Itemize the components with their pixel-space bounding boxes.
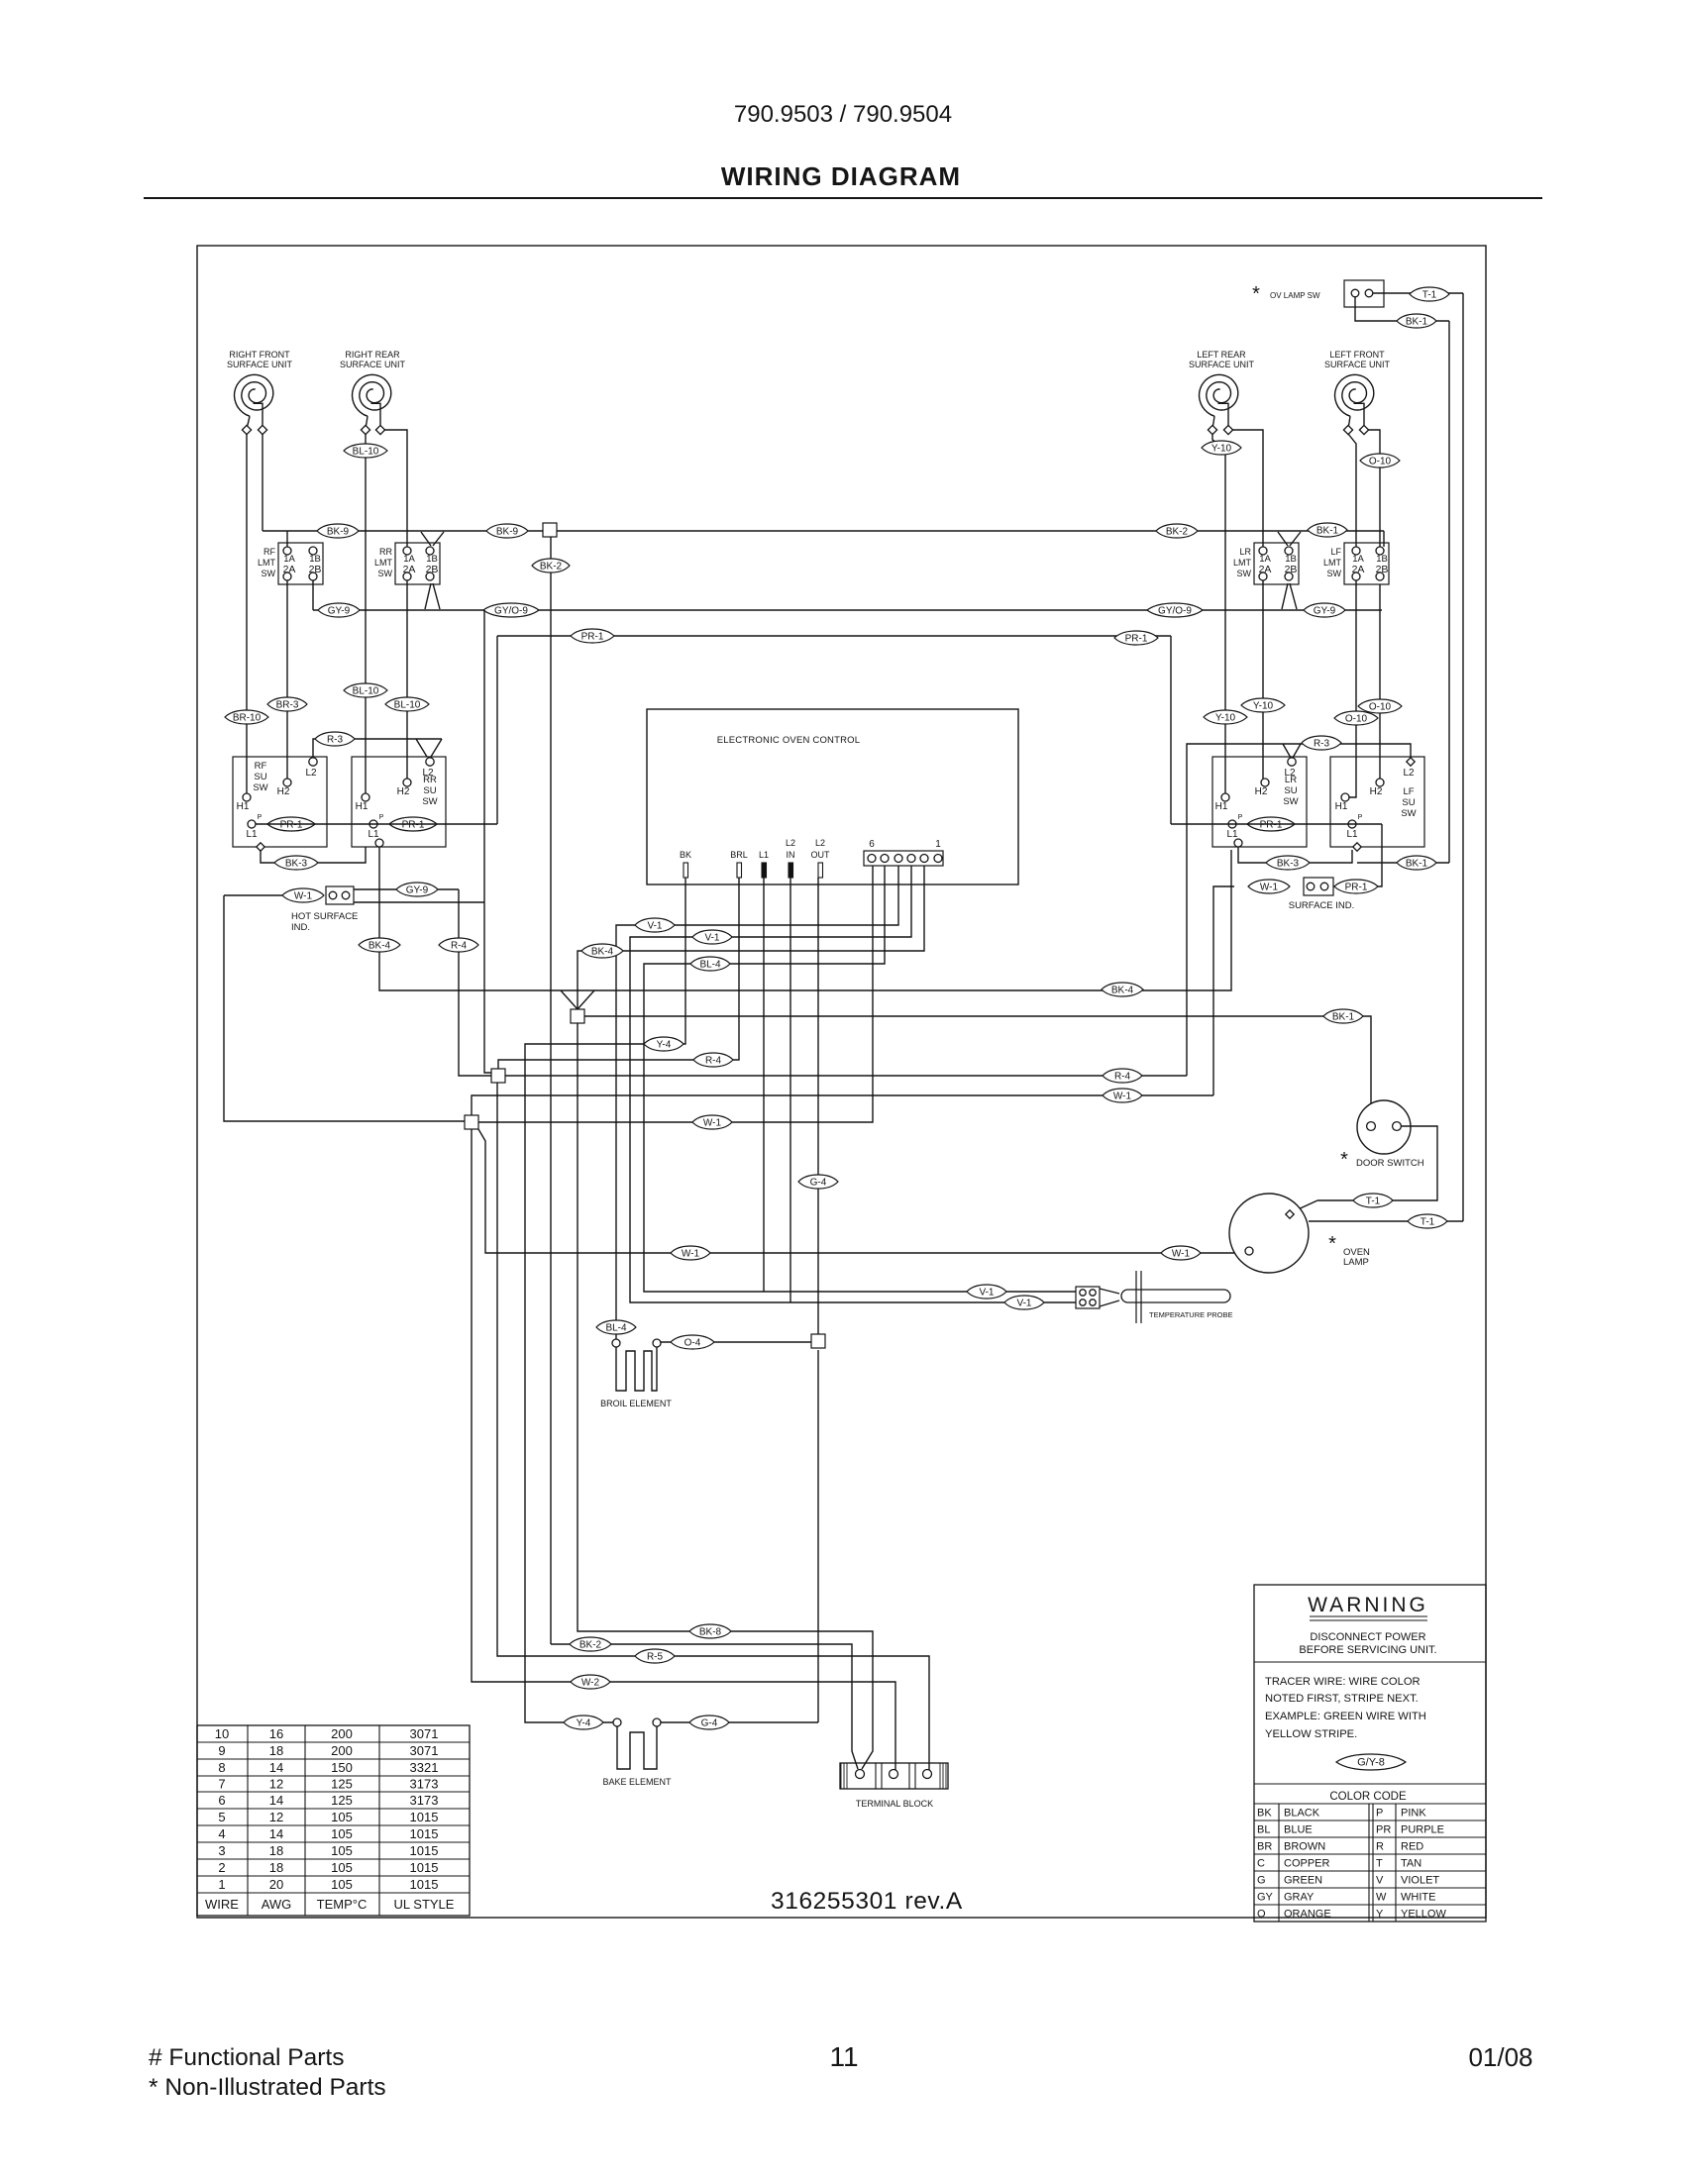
wire label BK-1 top right xyxy=(1397,314,1436,328)
wire BK-4 from EOC pin2 to junction A xyxy=(578,866,924,1009)
svg-text:20: 20 xyxy=(269,1877,283,1892)
wire PR-1 through LR/LF SU switches xyxy=(1171,823,1382,825)
wire label BK-9 left xyxy=(317,524,359,538)
wire RR right terminal over and down to RR 1A xyxy=(384,430,407,547)
wire RF 2B down to GY bus xyxy=(312,580,314,610)
wire label PR-1 right xyxy=(1114,631,1158,645)
svg-text:2B: 2B xyxy=(309,564,322,575)
svg-text:DISCONNECT POWER: DISCONNECT POWER xyxy=(1310,1631,1425,1643)
svg-text:O-10: O-10 xyxy=(1369,701,1392,712)
svg-text:RIGHT REAR: RIGHT REAR xyxy=(345,350,400,360)
wire RR left terminal to H1 with BL-10 labels xyxy=(365,434,367,793)
svg-text:10: 10 xyxy=(215,1726,229,1741)
wire from indicator to GY drop xyxy=(354,901,484,903)
svg-text:OUT: OUT xyxy=(811,850,831,860)
svg-text:BR-10: BR-10 xyxy=(233,712,262,723)
svg-text:12: 12 xyxy=(269,1777,283,1792)
svg-text:COLOR CODE: COLOR CODE xyxy=(1329,1791,1407,1803)
wire label PR-1 left xyxy=(571,629,614,643)
svg-text:SW: SW xyxy=(253,782,267,793)
svg-text:O-4: O-4 xyxy=(684,1337,701,1348)
svg-text:YELLOW: YELLOW xyxy=(1401,1909,1446,1921)
switch DOOR SWITCH xyxy=(1357,1100,1411,1154)
svg-text:H1: H1 xyxy=(356,801,368,812)
wire BK-9 bus corner down to LF 1B xyxy=(1383,531,1385,547)
svg-text:PURPLE: PURPLE xyxy=(1401,1824,1444,1836)
svg-text:L2: L2 xyxy=(786,838,795,848)
svg-text:2B: 2B xyxy=(1285,564,1298,575)
wire V-join into junction A xyxy=(561,990,578,1009)
svg-text:T-1: T-1 xyxy=(1422,289,1437,300)
svg-text:V-1: V-1 xyxy=(979,1287,994,1298)
switch LR LMT SW xyxy=(1254,543,1299,584)
svg-text:TRACER WIRE: WIRE COLOR: TRACER WIRE: WIRE COLOR xyxy=(1265,1676,1421,1688)
svg-text:LMT: LMT xyxy=(1233,558,1252,568)
svg-text:IND.: IND. xyxy=(291,922,310,933)
svg-text:1015: 1015 xyxy=(410,1843,439,1858)
wire OV LAMP SW to T-1 and down right side xyxy=(1373,292,1463,294)
svg-text:R-3: R-3 xyxy=(1314,738,1330,749)
svg-text:Y-10: Y-10 xyxy=(1215,712,1236,723)
svg-text:2A: 2A xyxy=(403,564,416,575)
wire RR 2A down through BL-10 to H2 xyxy=(406,580,408,779)
svg-text:BK-9: BK-9 xyxy=(327,526,350,537)
LR SU SW L1 bottom terminal xyxy=(1234,839,1242,847)
svg-text:O-10: O-10 xyxy=(1369,456,1392,467)
wire BK-2 drop from junction xyxy=(550,537,552,1644)
svg-text:TAN: TAN xyxy=(1401,1858,1421,1870)
svg-text:L2: L2 xyxy=(1284,768,1296,779)
svg-text:1: 1 xyxy=(218,1877,225,1892)
svg-text:BRL: BRL xyxy=(730,850,748,860)
wire LR left terminal to H1 with Y-10 labels xyxy=(1212,434,1225,793)
wire label GY/O-9 left xyxy=(483,603,539,617)
svg-text:3173: 3173 xyxy=(410,1777,439,1792)
junction A node xyxy=(571,1009,584,1023)
svg-text:1015: 1015 xyxy=(410,1826,439,1841)
svg-text:SURFACE UNIT: SURFACE UNIT xyxy=(1189,360,1255,369)
wire R-3 left from RF-SU L2 xyxy=(313,739,442,758)
svg-text:18: 18 xyxy=(269,1843,283,1858)
svg-text:LF: LF xyxy=(1403,786,1414,797)
svg-text:GY/O-9: GY/O-9 xyxy=(1158,605,1192,616)
svg-text:PR-1: PR-1 xyxy=(1260,819,1283,830)
controller U1 ELECTRONIC OVEN CONTROL box xyxy=(647,709,1018,884)
svg-text:UL STYLE: UL STYLE xyxy=(394,1897,455,1912)
svg-text:R-4: R-4 xyxy=(451,940,468,951)
switch RF SU SW (surface unit switch) xyxy=(233,757,327,847)
wire GY bus drop to junction B xyxy=(484,610,491,1073)
svg-text:TERMINAL BLOCK: TERMINAL BLOCK xyxy=(856,1799,933,1809)
svg-text:BK-1: BK-1 xyxy=(1406,316,1428,327)
svg-text:125: 125 xyxy=(331,1777,353,1792)
svg-text:H2: H2 xyxy=(1255,786,1268,797)
wire BK net RR L1 to LR L1 long run xyxy=(379,847,1231,990)
svg-text:WIRE: WIRE xyxy=(205,1897,239,1912)
wire R-3 right from LR-SU L2 xyxy=(1187,744,1411,1076)
wire G-4 from EOC L2 OUT down to bake element xyxy=(817,878,819,1334)
svg-text:BK: BK xyxy=(680,850,691,860)
wire label T-1 top xyxy=(1410,287,1449,301)
svg-text:YELLOW STRIPE.: YELLOW STRIPE. xyxy=(1265,1728,1357,1740)
svg-text:BLACK: BLACK xyxy=(1284,1808,1320,1820)
TEMPERATURE PROBE mounting plate xyxy=(1135,1271,1137,1323)
wire PR-1 riser right xyxy=(1170,636,1172,824)
svg-text:T-1: T-1 xyxy=(1421,1216,1435,1227)
svg-text:3: 3 xyxy=(218,1843,225,1858)
svg-text:BK-4: BK-4 xyxy=(368,940,391,951)
svg-text:3173: 3173 xyxy=(410,1793,439,1808)
svg-text:BL-10: BL-10 xyxy=(394,699,421,710)
svg-text:1015: 1015 xyxy=(410,1810,439,1824)
svg-text:COPPER: COPPER xyxy=(1284,1858,1330,1870)
svg-text:NOTED FIRST, STRIPE NEXT.: NOTED FIRST, STRIPE NEXT. xyxy=(1265,1693,1419,1705)
wire OV LAMP SW pin1 down to BK-1 xyxy=(1355,297,1449,321)
svg-text:R-4: R-4 xyxy=(1114,1071,1131,1082)
svg-text:Y-10: Y-10 xyxy=(1253,700,1274,711)
svg-text:Y-4: Y-4 xyxy=(577,1717,591,1728)
wire label GY-9 left xyxy=(318,603,360,617)
svg-text:BK-4: BK-4 xyxy=(1111,985,1134,995)
svg-text:5: 5 xyxy=(218,1810,225,1824)
terminal block lug 2 xyxy=(890,1770,898,1779)
junction D node xyxy=(811,1334,825,1348)
svg-text:SURFACE UNIT: SURFACE UNIT xyxy=(227,360,293,369)
svg-text:790.9503 / 790.9504: 790.9503 / 790.9504 xyxy=(734,101,952,128)
indicator lamp HOT SURFACE IND xyxy=(326,886,354,904)
svg-text:PR-1: PR-1 xyxy=(280,819,303,830)
svg-text:LMT: LMT xyxy=(374,558,393,568)
wire W-1 into hot surface indicator xyxy=(224,894,282,896)
svg-text:GY-9: GY-9 xyxy=(1314,605,1336,616)
svg-text:Y-4: Y-4 xyxy=(657,1039,672,1050)
svg-text:14: 14 xyxy=(269,1760,283,1775)
switch SW1 OV LAMP SW box xyxy=(1344,280,1384,307)
svg-text:SURFACE UNIT: SURFACE UNIT xyxy=(340,360,406,369)
svg-text:2A: 2A xyxy=(1352,564,1365,575)
svg-text:PR-1: PR-1 xyxy=(402,819,425,830)
svg-text:LMT: LMT xyxy=(1323,558,1342,568)
svg-text:SW: SW xyxy=(378,569,393,578)
switch LR SU SW xyxy=(1212,757,1307,847)
svg-text:W-2: W-2 xyxy=(581,1677,600,1688)
svg-text:C: C xyxy=(1257,1858,1265,1870)
svg-text:GY-9: GY-9 xyxy=(406,884,429,895)
table wire gauge specifications xyxy=(197,1725,470,1916)
svg-text:BK-1: BK-1 xyxy=(1406,858,1428,869)
svg-text:T-1: T-1 xyxy=(1366,1196,1381,1206)
svg-text:2: 2 xyxy=(218,1860,225,1875)
svg-text:BK-4: BK-4 xyxy=(591,946,614,957)
svg-text:BAKE ELEMENT: BAKE ELEMENT xyxy=(602,1777,672,1787)
svg-text:L2: L2 xyxy=(815,838,825,848)
svg-text:L1: L1 xyxy=(1226,829,1238,840)
wire fan LR 2B to GY bus xyxy=(1282,583,1288,609)
svg-text:W-1: W-1 xyxy=(703,1117,722,1128)
svg-text:RF: RF xyxy=(255,761,267,772)
svg-text:14: 14 xyxy=(269,1826,283,1841)
svg-text:PR-1: PR-1 xyxy=(1345,882,1368,892)
svg-text:105: 105 xyxy=(331,1810,353,1824)
svg-text:AWG: AWG xyxy=(262,1897,292,1912)
wire PR-1 through RF/RR SU switches xyxy=(256,823,497,825)
oven lamp terminal diamond xyxy=(1286,1210,1294,1218)
wire W-2 junction C down to terminal block xyxy=(472,1129,895,1771)
svg-text:1015: 1015 xyxy=(410,1877,439,1892)
svg-text:G/Y-8: G/Y-8 xyxy=(1357,1756,1385,1768)
svg-text:Y: Y xyxy=(1376,1909,1384,1921)
wire LF left terminal down to LF 1A xyxy=(1348,434,1356,547)
svg-text:R-3: R-3 xyxy=(327,734,344,745)
wire V-1 from EOC pin4 to broil element feed xyxy=(616,866,898,1339)
svg-text:200: 200 xyxy=(331,1726,353,1741)
svg-text:SU: SU xyxy=(1284,785,1297,796)
svg-text:T: T xyxy=(1376,1858,1383,1870)
svg-text:PR-1: PR-1 xyxy=(581,631,604,642)
svg-text:BK-2: BK-2 xyxy=(540,561,563,572)
warning box frame xyxy=(1254,1585,1486,1922)
svg-text:R-5: R-5 xyxy=(647,1651,664,1662)
LF SU SW L1 bottom terminal xyxy=(1353,843,1361,851)
switch LF SU SW xyxy=(1330,757,1424,847)
svg-text:G-4: G-4 xyxy=(810,1177,827,1188)
svg-text:SU: SU xyxy=(254,772,266,782)
wire GY-9 from indicator to riser xyxy=(354,888,459,890)
wire L1 pin drop xyxy=(763,878,765,1292)
svg-text:LEFT REAR: LEFT REAR xyxy=(1197,350,1246,360)
switch LF LMT SW xyxy=(1344,543,1389,584)
svg-text:W-1: W-1 xyxy=(1260,882,1279,892)
svg-text:BEFORE SERVICING UNIT.: BEFORE SERVICING UNIT. xyxy=(1299,1644,1436,1656)
svg-text:BL-4: BL-4 xyxy=(699,959,721,970)
svg-text:O: O xyxy=(1257,1909,1266,1921)
svg-text:W: W xyxy=(1376,1892,1387,1904)
svg-text:BK-9: BK-9 xyxy=(496,526,519,537)
wire label BK-9 mid xyxy=(486,524,528,538)
svg-text:H2: H2 xyxy=(1370,786,1383,797)
indicator lamp SURFACE IND xyxy=(1304,878,1333,895)
svg-text:L2: L2 xyxy=(1403,768,1415,779)
wire V-1 from EOC pin3 to temperature probe xyxy=(630,866,1076,1302)
wire LF 2B down through O-10 to H2 xyxy=(1379,584,1381,779)
terminal block lug 1 xyxy=(856,1770,865,1779)
svg-text:P: P xyxy=(258,814,263,821)
svg-text:SURFACE UNIT: SURFACE UNIT xyxy=(1324,360,1391,369)
svg-text:*: * xyxy=(1328,1233,1336,1255)
svg-text:# Functional Parts: # Functional Parts xyxy=(149,2044,344,2071)
svg-text:PINK: PINK xyxy=(1401,1808,1426,1820)
svg-text:Y-10: Y-10 xyxy=(1211,443,1232,454)
svg-text:V: V xyxy=(1376,1875,1384,1887)
wire T-1 lamp to right riser xyxy=(1309,1220,1463,1222)
wire LF 2A down through O-10 to H1 xyxy=(1349,580,1356,797)
wire W-1 neutral drop to junction C xyxy=(224,895,465,1121)
svg-text:SW: SW xyxy=(1237,569,1252,578)
switch RR SU SW xyxy=(352,757,446,847)
wire LR right terminal over and down to LR 1A xyxy=(1232,430,1263,547)
svg-text:GY/O-9: GY/O-9 xyxy=(494,605,528,616)
svg-text:L1: L1 xyxy=(246,829,258,840)
wire T-1 door switch to oven lamp xyxy=(1317,1126,1437,1200)
wire tap down to RF 1A xyxy=(286,531,288,547)
svg-text:WHITE: WHITE xyxy=(1401,1892,1435,1904)
svg-text:BROIL ELEMENT: BROIL ELEMENT xyxy=(600,1399,672,1408)
svg-text:W-1: W-1 xyxy=(294,890,313,901)
svg-text:6: 6 xyxy=(218,1793,225,1808)
wire R-4/R-5 from EOC BRL pin to terminal block xyxy=(498,878,739,1069)
svg-text:LMT: LMT xyxy=(258,558,276,568)
svg-text:18: 18 xyxy=(269,1860,283,1875)
wire label BK-1 right bus xyxy=(1308,523,1347,537)
wire Y-4 from EOC BK pin to bake element xyxy=(525,878,685,1722)
svg-text:G: G xyxy=(1257,1875,1266,1887)
EOC connector J1 6-pin block xyxy=(864,851,943,866)
svg-text:W-1: W-1 xyxy=(1172,1248,1191,1259)
switch RF LMT SW xyxy=(278,543,323,584)
svg-text:ELECTRONIC OVEN CONTROL: ELECTRONIC OVEN CONTROL xyxy=(717,735,860,746)
wire fan into RR 1B xyxy=(421,532,431,546)
svg-text:BL: BL xyxy=(1257,1824,1270,1836)
svg-text:2B: 2B xyxy=(426,564,439,575)
wire BK-3 link RF L1 to RR L1 xyxy=(261,847,366,863)
terminal block lug 3 xyxy=(923,1770,932,1779)
wire GY-9 bus horizontal xyxy=(313,609,1382,611)
wire L2 IN pin drop xyxy=(789,878,791,1302)
wire RF 2A down through BR-3 to H2 xyxy=(286,580,288,779)
wire label GY/O-9 right xyxy=(1147,603,1203,617)
heating element BAKE ELEMENT xyxy=(613,1718,621,1726)
svg-text:R-4: R-4 xyxy=(705,1055,722,1066)
svg-text:V-1: V-1 xyxy=(704,932,719,943)
junction C node xyxy=(465,1115,478,1129)
OV LAMP SW pin 1 xyxy=(1351,289,1359,297)
wire BK-8 junction A down to terminal block xyxy=(578,1023,873,1769)
svg-text:4: 4 xyxy=(218,1826,225,1841)
svg-text:H1: H1 xyxy=(237,801,250,812)
svg-text:* Non-Illustrated Parts: * Non-Illustrated Parts xyxy=(149,2074,386,2101)
heating element BROIL ELEMENT xyxy=(612,1339,620,1347)
svg-text:LAMP: LAMP xyxy=(1343,1257,1369,1268)
svg-text:IN: IN xyxy=(787,850,795,860)
svg-text:RIGHT FRONT: RIGHT FRONT xyxy=(229,350,290,360)
svg-text:GY: GY xyxy=(1257,1892,1274,1904)
svg-text:ORANGE: ORANGE xyxy=(1284,1909,1331,1921)
connector TERMINAL BLOCK xyxy=(840,1763,948,1789)
svg-text:*: * xyxy=(1252,283,1260,305)
svg-text:SU: SU xyxy=(1402,797,1415,808)
wire BL-4 from EOC pin5 to temperature probe xyxy=(644,866,1076,1292)
svg-text:8: 8 xyxy=(218,1760,225,1775)
svg-text:3321: 3321 xyxy=(410,1760,439,1775)
example wire label G/Y-8 xyxy=(1336,1754,1406,1770)
svg-text:6: 6 xyxy=(869,839,875,850)
svg-text:2B: 2B xyxy=(1376,564,1389,575)
svg-text:150: 150 xyxy=(331,1760,353,1775)
svg-text:LR: LR xyxy=(1239,547,1251,557)
wire RF right terminal down to BK-9 bus xyxy=(262,434,263,531)
title underline rule xyxy=(144,197,1542,199)
svg-text:P: P xyxy=(379,814,384,821)
svg-text:SW: SW xyxy=(262,569,276,578)
svg-text:3071: 3071 xyxy=(410,1743,439,1758)
RF SU SW L1 bottom terminal xyxy=(257,843,264,851)
svg-text:L1: L1 xyxy=(368,829,379,840)
svg-text:H1: H1 xyxy=(1215,801,1228,812)
svg-text:HOT SURFACE: HOT SURFACE xyxy=(291,911,358,922)
wire BK-1 link LF L1 to right riser xyxy=(1357,862,1449,864)
svg-text:01/08: 01/08 xyxy=(1468,2042,1532,2072)
wire LR 2A down through Y-10 to H2 xyxy=(1262,580,1264,779)
svg-text:11: 11 xyxy=(829,2041,858,2072)
svg-text:BLUE: BLUE xyxy=(1284,1824,1313,1836)
svg-text:EXAMPLE: GREEN WIRE WITH: EXAMPLE: GREEN WIRE WITH xyxy=(1265,1711,1426,1722)
svg-text:7: 7 xyxy=(218,1777,225,1792)
wire PR-1 from surface indicator xyxy=(1333,824,1382,886)
svg-text:18: 18 xyxy=(269,1743,283,1758)
svg-text:105: 105 xyxy=(331,1860,353,1875)
svg-text:200: 200 xyxy=(331,1743,353,1758)
svg-text:WIRING DIAGRAM: WIRING DIAGRAM xyxy=(721,161,961,191)
svg-text:BK-1: BK-1 xyxy=(1316,525,1339,536)
svg-text:W-1: W-1 xyxy=(1113,1091,1132,1101)
svg-text:L1: L1 xyxy=(759,850,769,860)
wire RF left terminal to H1 with BR-10 xyxy=(246,434,248,793)
wire W-1 into surface indicator xyxy=(1213,886,1234,1095)
wire W-1 junction C to oven lamp xyxy=(478,1129,1245,1253)
svg-text:P: P xyxy=(1238,814,1243,821)
svg-text:BL-10: BL-10 xyxy=(353,685,379,696)
svg-text:16: 16 xyxy=(269,1726,283,1741)
wire R-4 junction B to LR riser xyxy=(505,1075,1187,1077)
svg-text:L1: L1 xyxy=(1346,829,1358,840)
junction node on BK-9 bus xyxy=(543,523,557,537)
wire PR-1 bus horizontal xyxy=(497,635,1171,637)
svg-text:L2: L2 xyxy=(422,768,434,779)
svg-text:316255301 rev.A: 316255301 rev.A xyxy=(771,1888,963,1915)
svg-text:LEFT FRONT: LEFT FRONT xyxy=(1329,350,1385,360)
svg-text:H2: H2 xyxy=(277,786,290,797)
svg-text:2A: 2A xyxy=(1259,564,1272,575)
svg-text:BROWN: BROWN xyxy=(1284,1841,1325,1853)
svg-text:H1: H1 xyxy=(1335,801,1348,812)
svg-text:SURFACE IND.: SURFACE IND. xyxy=(1289,900,1355,911)
svg-text:BK-3: BK-3 xyxy=(285,858,308,869)
svg-text:RED: RED xyxy=(1401,1841,1423,1853)
svg-text:P: P xyxy=(1358,814,1363,821)
svg-text:PR-1: PR-1 xyxy=(1125,633,1148,644)
svg-text:105: 105 xyxy=(331,1826,353,1841)
svg-text:R: R xyxy=(1376,1841,1384,1853)
svg-text:GREEN: GREEN xyxy=(1284,1875,1322,1887)
svg-text:SW: SW xyxy=(422,796,437,807)
svg-text:BK: BK xyxy=(1257,1808,1272,1820)
svg-text:3071: 3071 xyxy=(410,1726,439,1741)
wire label GY-9 right xyxy=(1304,603,1345,617)
sensor TEMPERATURE PROBE connector xyxy=(1076,1287,1100,1308)
svg-text:P: P xyxy=(1376,1808,1383,1820)
svg-text:DOOR SWITCH: DOOR SWITCH xyxy=(1356,1158,1424,1169)
svg-text:RF: RF xyxy=(263,547,275,557)
svg-text:LF: LF xyxy=(1330,547,1341,557)
svg-text:BR-3: BR-3 xyxy=(276,699,299,710)
wire O-4 junction D to broil element xyxy=(661,1341,811,1343)
svg-text:BK-2: BK-2 xyxy=(1166,526,1189,537)
svg-text:SW: SW xyxy=(1283,796,1298,807)
svg-text:BL-10: BL-10 xyxy=(353,446,379,457)
svg-text:1015: 1015 xyxy=(410,1860,439,1875)
wire LF right terminal down through O-10 to LF 1B xyxy=(1368,430,1380,547)
wire fan RR 2B to GY bus xyxy=(425,583,431,609)
